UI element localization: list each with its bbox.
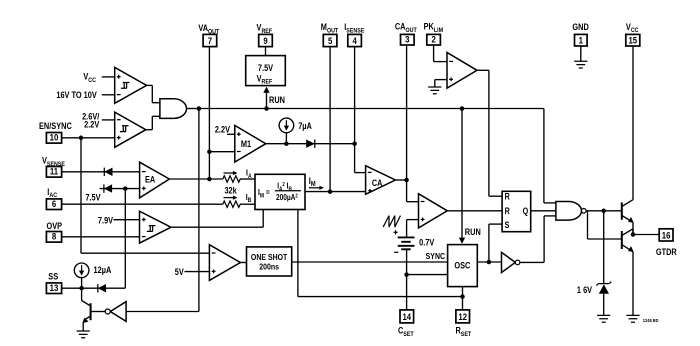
svg-text:IM =: IM =	[258, 188, 270, 200]
svg-text:4: 4	[352, 35, 356, 46]
svg-text:EA: EA	[145, 175, 155, 185]
svg-text:M1: M1	[241, 140, 252, 150]
svg-text:200µA2: 200µA2	[276, 192, 298, 202]
svg-text:1: 1	[579, 35, 583, 46]
svg-text:ONE SHOT: ONE SHOT	[251, 252, 288, 262]
svg-text:OSC: OSC	[454, 261, 470, 271]
svg-text:12µA: 12µA	[94, 266, 112, 276]
svg-text:SS: SS	[48, 272, 58, 282]
svg-text:9: 9	[263, 35, 267, 46]
svg-text:RUN: RUN	[269, 95, 285, 105]
svg-text:0.7V: 0.7V	[419, 238, 435, 248]
svg-text:10: 10	[50, 132, 59, 143]
svg-text:GND: GND	[572, 22, 588, 32]
svg-text:16V TO 10V: 16V TO 10V	[56, 90, 97, 100]
svg-text:S: S	[505, 220, 510, 230]
svg-text:2.2V: 2.2V	[215, 125, 231, 135]
svg-text:12: 12	[458, 311, 467, 322]
svg-text:5V: 5V	[175, 268, 184, 278]
svg-text:2.2V: 2.2V	[84, 120, 100, 130]
svg-text:32k: 32k	[224, 186, 237, 196]
svg-text:Q: Q	[523, 206, 529, 216]
svg-text:RUN: RUN	[465, 227, 481, 237]
svg-text:7.9V: 7.9V	[98, 216, 114, 226]
svg-text:SYNC: SYNC	[426, 252, 446, 262]
svg-text:CA: CA	[372, 178, 383, 188]
svg-text:15: 15	[628, 35, 637, 46]
svg-text:EN/SYNC: EN/SYNC	[39, 121, 72, 131]
svg-text:16: 16	[662, 230, 671, 241]
svg-text:13: 13	[50, 282, 59, 293]
svg-text:6: 6	[52, 198, 56, 209]
svg-text:8: 8	[52, 231, 56, 242]
svg-text:1 6V: 1 6V	[577, 285, 593, 295]
svg-text:7.5V: 7.5V	[258, 63, 274, 73]
svg-text:7: 7	[208, 35, 212, 46]
svg-text:3: 3	[405, 34, 409, 45]
svg-text:R: R	[505, 206, 510, 216]
svg-text:11: 11	[50, 166, 58, 177]
svg-text:1248 BD: 1248 BD	[643, 318, 659, 323]
svg-text:2: 2	[431, 34, 435, 45]
svg-text:7µA: 7µA	[298, 122, 312, 132]
svg-text:R: R	[505, 192, 510, 202]
svg-text:GTDR: GTDR	[656, 247, 677, 257]
svg-text:OVP: OVP	[47, 221, 63, 231]
svg-text:7.5V: 7.5V	[85, 193, 101, 203]
svg-text:5: 5	[328, 35, 332, 46]
svg-text:14: 14	[402, 311, 411, 322]
svg-text:200ns: 200ns	[259, 262, 279, 272]
